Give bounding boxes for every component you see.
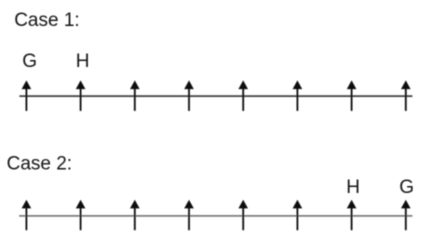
svg-text:G: G [399,177,414,198]
svg-text:H: H [346,177,360,198]
arrow 1 (case 1) [22,80,32,111]
arrow 4 (case 2) [184,200,194,231]
svg-text:G: G [22,51,37,72]
arrow 5 (case 1) [238,80,248,111]
svg-text:H: H [76,51,90,72]
arrow 1 (case 2) [22,200,32,231]
arrow 8 (case 1) [401,80,411,111]
arrow 7 (case 1) [347,80,357,111]
arrow 7 (case 2) [347,200,357,231]
arrow 4 (case 1) [184,80,194,111]
svg-text:Case 2:: Case 2: [7,153,72,174]
arrow 6 (case 1) [293,80,303,111]
case 1 axis line [19,95,412,97]
arrow 8 (case 2) [401,200,411,231]
arrow 2 (case 1) [76,80,86,111]
arrow 2 (case 2) [76,200,86,231]
arrow 6 (case 2) [293,200,303,231]
arrow 3 (case 2) [130,200,140,231]
svg-text:Case 1:: Case 1: [14,10,79,31]
case 2 axis line [19,215,412,217]
arrow 3 (case 1) [130,80,140,111]
arrow 5 (case 2) [238,200,248,231]
